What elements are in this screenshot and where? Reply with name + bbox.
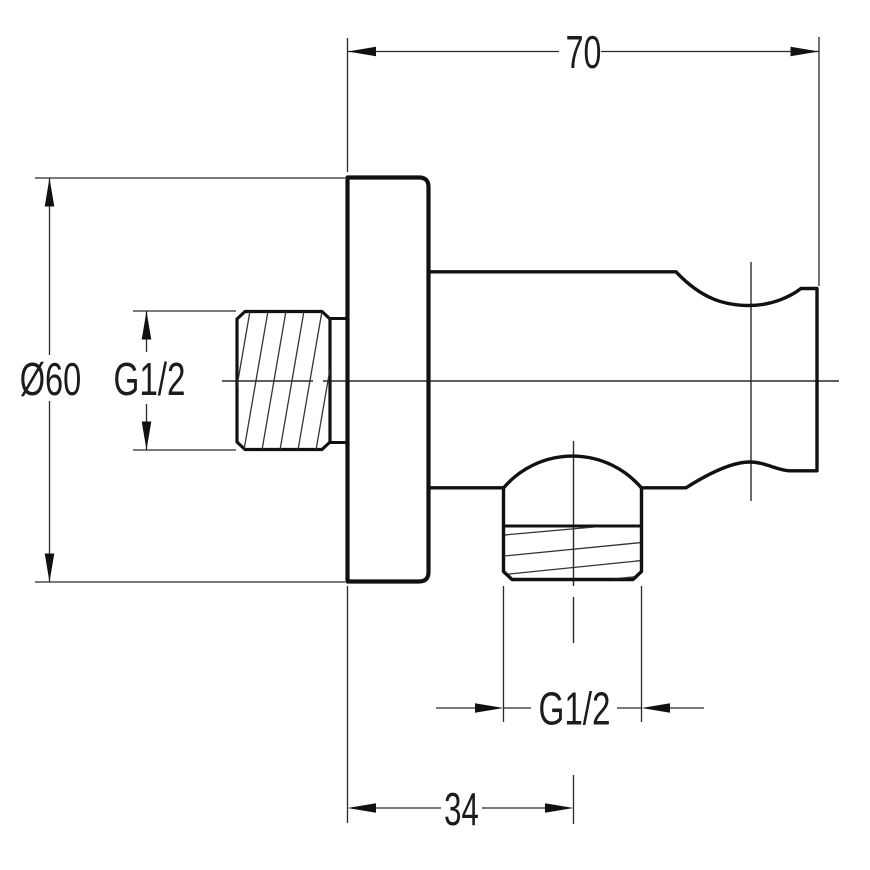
dimension 70: right arrow [791, 47, 820, 57]
outlet thread top line [504, 525, 642, 528]
svg-text:Ø60: Ø60 [20, 353, 82, 405]
dimension 70: left arrow [348, 47, 377, 57]
dimension 70: text [566, 27, 602, 78]
svg-text:G1/2: G1/2 [538, 682, 610, 735]
dimension G1/2 left: bottom arrow [142, 422, 152, 451]
dimension G1/2 bottom: extension lines [504, 586, 642, 722]
dimension G1/2 left: dim line [146, 311, 148, 450]
holder vertical centerline [750, 262, 752, 501]
svg-text:G1/2: G1/2 [113, 352, 185, 405]
dimension O60: dim line [49, 178, 51, 582]
dimension 34: text [444, 784, 479, 836]
dimension 70: extension lines [348, 37, 820, 286]
dimension G1/2 left: text [113, 352, 185, 405]
dimension G1/2 bottom: left arrow [475, 703, 504, 713]
body outline with holder waist [429, 272, 817, 488]
dimension G1/2 bottom: right arrow [642, 703, 671, 713]
inlet thread hatch [208, 311, 340, 450]
dimension G1/2 left: extension lines [133, 311, 236, 450]
dimension O60: text [20, 353, 82, 405]
outlet thread hatch [504, 527, 642, 591]
dimension 34: extension lines [348, 586, 574, 824]
outlet body sides and bottom [504, 488, 642, 580]
inlet thread neck [330, 319, 348, 443]
outlet vertical centerline [573, 441, 575, 643]
outlet dome arc [504, 456, 642, 488]
dimension 34: left arrow [348, 803, 377, 813]
dimension O60: extension lines [35, 178, 345, 582]
dimension G1/2 bottom: dim line tails [436, 707, 704, 709]
dimension G1/2 bottom: text [538, 682, 610, 735]
wall flange [348, 178, 429, 582]
horizontal main centerline [222, 380, 839, 382]
dimension 34: right arrow [545, 803, 574, 813]
inlet thread body octagon [237, 312, 330, 450]
svg-text:70: 70 [566, 27, 602, 78]
dimension O60: top arrow [45, 178, 55, 207]
dimension 34: dim line [376, 807, 545, 809]
svg-text:34: 34 [444, 784, 479, 836]
dimension O60: bottom arrow [45, 554, 55, 583]
dimension G1/2 left: top arrow [142, 311, 152, 340]
dimension 70: dim line [348, 51, 820, 53]
